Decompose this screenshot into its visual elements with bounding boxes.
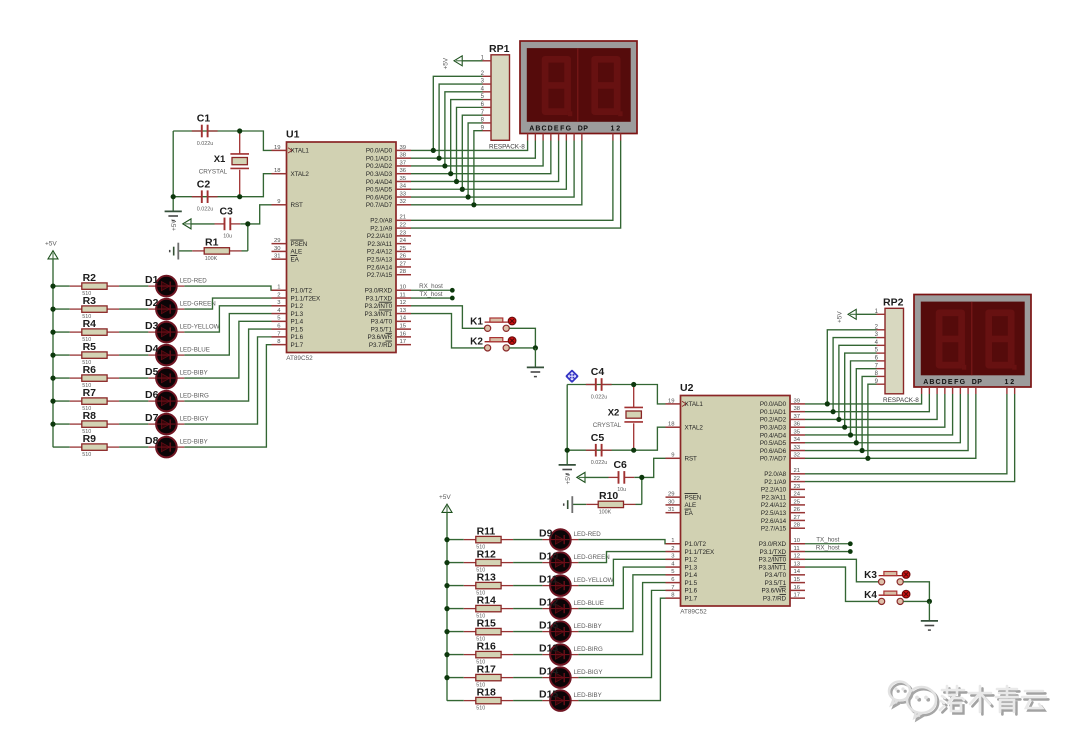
LED D16 LED-BIBY: [539, 619, 602, 641]
wire reset node down to resistor: [641, 477, 643, 504]
svg-text:27: 27: [794, 515, 801, 521]
svg-text:P3.7/RD: P3.7/RD: [763, 595, 787, 602]
7SEG-U2 digit 1 segments: [939, 313, 966, 370]
power +5V terminal at reset capacitor: [171, 219, 191, 231]
wire ground node down: [928, 601, 930, 621]
push button K2: [470, 336, 516, 351]
svg-text:P2.1/A9: P2.1/A9: [370, 225, 392, 232]
svg-text:C: C: [541, 125, 546, 132]
svg-text:R1: R1: [205, 237, 219, 249]
svg-text:K1: K1: [470, 317, 483, 328]
resistor R6 510: [70, 364, 119, 389]
svg-text:XTAL2: XTAL2: [291, 171, 310, 178]
svg-text:LED-BIBY: LED-BIBY: [574, 623, 602, 630]
svg-text:E: E: [554, 125, 559, 132]
7SEG-U2 digit 2 segments: [989, 313, 1017, 370]
svg-text:C4: C4: [591, 366, 605, 378]
svg-text:26: 26: [400, 254, 407, 260]
wire U2 P0.7 to display segment DP: [805, 394, 976, 458]
U2 pin numbers: [668, 398, 801, 598]
wire rail to resistor R11: [447, 539, 464, 541]
svg-text:510: 510: [82, 452, 91, 458]
junction U1 P0.4: [454, 179, 459, 184]
wire riser P0.3 to RP2 pin 5: [845, 353, 877, 427]
resistor R16 510: [464, 640, 513, 665]
wire reset capacitor to node: [240, 223, 248, 225]
resistor R8 510: [70, 410, 119, 435]
junction LED rail row 4: [50, 353, 55, 358]
svg-text:R3: R3: [83, 295, 97, 307]
junction crystal top: [631, 382, 636, 387]
wire U2 P0.4 to display segment E: [805, 394, 953, 435]
wire resistor R10 to reset node: [636, 503, 642, 505]
svg-text:D14: D14: [539, 665, 558, 677]
7SEG-U1 digit 2 segments: [595, 59, 623, 116]
7-segment 2-digit display 7SEG-U1 frame: [520, 41, 637, 134]
svg-text:C1: C1: [197, 113, 211, 125]
junction U2 P0.7: [865, 456, 870, 461]
svg-text:P3.7/RD: P3.7/RD: [369, 342, 393, 349]
wire rail to resistor R14: [447, 608, 464, 610]
svg-text:P3.5/T1: P3.5/T1: [765, 580, 787, 587]
svg-text:19: 19: [668, 398, 675, 404]
wire resistor R11 to LED D9: [513, 539, 542, 541]
ground at resistor R10: [564, 496, 573, 513]
wire reset node down to resistor: [247, 224, 249, 251]
svg-text:15: 15: [794, 577, 801, 583]
resistor R4 510: [70, 318, 119, 343]
wire resistor R7 to LED D6: [119, 400, 148, 402]
LED D15 LED-BIBY: [539, 688, 602, 710]
svg-text:14: 14: [400, 316, 407, 322]
wire U1 P0.3 to display segment D: [411, 141, 551, 174]
svg-text:LED-YELLOW: LED-YELLOW: [574, 577, 614, 584]
svg-text:P2.3/A11: P2.3/A11: [367, 241, 392, 248]
resistor R10 100K: [586, 490, 635, 515]
LED D1 LED-RED: [145, 274, 207, 297]
wire riser P0.2 to RP1 pin 4: [445, 92, 483, 166]
svg-text:TX_host: TX_host: [419, 291, 442, 298]
wire reset node to U2 RST: [642, 458, 666, 477]
ground below oscillator rail: [559, 465, 576, 474]
wire LED D6 to U1 P1.5: [184, 329, 271, 401]
svg-text:D12: D12: [539, 596, 558, 608]
capacitor C3 10u: [215, 206, 241, 240]
svg-text:11: 11: [400, 292, 406, 298]
svg-text:D3: D3: [145, 320, 159, 332]
LED D8 LED-BIBY: [145, 435, 208, 458]
svg-text:G: G: [566, 125, 572, 132]
svg-text:RESPACK-8: RESPACK-8: [883, 397, 919, 404]
svg-text:P3.6/WR: P3.6/WR: [762, 588, 787, 595]
wire resistor R16 to LED D14: [513, 654, 542, 656]
wire crystal loop bottom: [567, 449, 634, 451]
svg-text:K2: K2: [470, 336, 483, 347]
svg-text:P2.6/A14: P2.6/A14: [761, 518, 787, 525]
wire rail to resistor R9: [53, 446, 70, 448]
svg-text:P0.5/AD5: P0.5/AD5: [366, 187, 393, 194]
wire resistor R14 to LED D12: [513, 608, 542, 610]
svg-text:CRYSTAL: CRYSTAL: [199, 168, 228, 175]
svg-text:U1: U1: [286, 129, 300, 141]
junction LED rail row 5: [50, 376, 55, 381]
svg-text:PSEN: PSEN: [685, 494, 702, 501]
svg-text:R4: R4: [83, 318, 97, 330]
svg-text:36: 36: [794, 422, 801, 428]
resistor R14 510: [464, 594, 513, 619]
svg-text:P0.7/AD7: P0.7/AD7: [760, 456, 787, 463]
svg-text:+5V: +5V: [565, 472, 572, 484]
junction crystal top: [237, 128, 242, 133]
wire rail to resistor R5: [53, 354, 70, 356]
wire LED D8 to U1 P1.7: [184, 345, 271, 447]
svg-text:38: 38: [400, 153, 407, 159]
svg-text:R11: R11: [477, 525, 496, 537]
junction LED rail row 6: [444, 652, 449, 657]
svg-text:R14: R14: [477, 594, 496, 606]
wire LED D5 to U1 P1.4: [184, 321, 271, 378]
ground below buttons: [921, 621, 938, 630]
terminal RX_host: [816, 544, 853, 554]
resistor R12 510: [464, 548, 513, 573]
svg-text:P1.2: P1.2: [685, 557, 698, 564]
svg-text:XTAL2: XTAL2: [685, 425, 704, 432]
wire riser P0.4 to RP2 pin 6: [851, 361, 877, 435]
svg-text:F: F: [954, 379, 959, 386]
svg-text:LED-BIGY: LED-BIGY: [180, 416, 209, 423]
wire LED D16 to U2 P1.4: [578, 575, 665, 632]
svg-text:7: 7: [277, 331, 280, 337]
junction U2 P0.2: [836, 417, 841, 422]
svg-text:LED-GREEN: LED-GREEN: [180, 301, 216, 308]
svg-text:P2.6/A14: P2.6/A14: [367, 264, 393, 271]
resistor R13 510: [464, 571, 513, 596]
svg-text:D11: D11: [539, 573, 558, 585]
svg-text:+5V: +5V: [171, 219, 178, 231]
capacitor C6 10u: [609, 459, 635, 493]
resistor R11 510: [464, 525, 513, 550]
U2 pin stubs: [666, 401, 806, 598]
svg-text:100K: 100K: [599, 510, 612, 516]
junction reset node: [245, 221, 250, 226]
svg-text:+5V: +5V: [837, 311, 844, 323]
svg-text:R12: R12: [477, 548, 496, 560]
wire resistor R3 to LED D2: [119, 308, 148, 310]
svg-text:P2.4/A12: P2.4/A12: [367, 249, 393, 256]
wire LED D14 to U2 P1.6: [578, 590, 665, 677]
capacitor C5 0.022u: [586, 432, 612, 466]
svg-text:30: 30: [274, 246, 281, 252]
wire U1 P3.0 serial: [411, 289, 450, 291]
svg-text:0.022u: 0.022u: [591, 394, 608, 400]
resistor R2 510: [70, 272, 119, 297]
svg-text:21: 21: [794, 468, 801, 474]
svg-text:7: 7: [671, 585, 674, 591]
svg-text:2: 2: [277, 292, 280, 298]
wire U2 P3.2 to button K3: [805, 559, 879, 582]
svg-text:+5V: +5V: [45, 241, 57, 248]
wire node to U1 XTAL2: [240, 174, 272, 197]
svg-text:9: 9: [277, 199, 280, 205]
svg-text:LED-BIRG: LED-BIRG: [574, 646, 603, 653]
wire rail to resistor R13: [447, 585, 464, 587]
svg-text:LED-YELLOW: LED-YELLOW: [180, 324, 220, 331]
resistor R17 510: [464, 663, 513, 688]
svg-text:18: 18: [274, 168, 281, 174]
resistor R1 100K: [192, 237, 241, 262]
wire resistor R1 to reset node: [242, 250, 248, 252]
svg-text:9: 9: [671, 453, 674, 459]
svg-text:10: 10: [400, 285, 407, 291]
svg-text:P0.3/AD3: P0.3/AD3: [366, 171, 393, 178]
svg-text:P3.6/WR: P3.6/WR: [368, 334, 393, 341]
wire resistor R18 to LED D16: [513, 700, 542, 702]
resistor R9 510: [70, 433, 119, 458]
svg-text:10u: 10u: [223, 234, 232, 240]
wire resistor R5 to LED D4: [119, 354, 148, 356]
svg-text:2: 2: [1010, 379, 1014, 386]
wire resistor R13 to LED D11: [513, 585, 542, 587]
svg-text:R6: R6: [83, 364, 97, 376]
U1 pin stubs: [272, 148, 412, 345]
LED D5 LED-BIBY: [145, 366, 208, 389]
svg-text:P1.6: P1.6: [291, 334, 304, 341]
power +5V terminal at RP1 pin 1: [443, 56, 463, 70]
junction U1 P0.2: [442, 163, 447, 168]
wire button K2 to ground node: [509, 347, 535, 349]
svg-text:B: B: [535, 125, 540, 132]
junction LED rail row 4: [444, 606, 449, 611]
wire rail to resistor R8: [53, 423, 70, 425]
svg-text:D13: D13: [539, 642, 558, 654]
svg-text:17: 17: [794, 593, 801, 599]
svg-text:22: 22: [400, 223, 407, 229]
wire rail to resistor R12: [447, 562, 464, 564]
svg-text:C6: C6: [613, 459, 627, 471]
7SEG-U2 display face: [921, 302, 1025, 376]
wire +5V to reset capacitor: [191, 223, 215, 225]
svg-text:P2.0/A8: P2.0/A8: [370, 218, 392, 225]
svg-text:D9: D9: [539, 527, 553, 539]
svg-text:D16: D16: [539, 619, 558, 631]
wire rail to resistor R4: [53, 331, 70, 333]
push button K1: [470, 317, 516, 332]
wire rail to resistor R2: [53, 285, 70, 287]
junction U1 P0.1: [437, 156, 442, 161]
junction LED rail row 6: [50, 399, 55, 404]
svg-text:E: E: [948, 379, 953, 386]
svg-text:P3.5/T1: P3.5/T1: [371, 326, 393, 333]
svg-text:D15: D15: [539, 688, 558, 700]
svg-text:C3: C3: [219, 206, 233, 218]
svg-text:D6: D6: [145, 389, 159, 401]
wire rail to resistor R16: [447, 654, 464, 656]
wire rail to resistor R6: [53, 377, 70, 379]
wire LED +5V rail: [446, 512, 448, 700]
wire LED D13 to U2 P1.5: [578, 583, 665, 655]
svg-text:P2.5/A13: P2.5/A13: [761, 510, 787, 517]
svg-text:PSEN: PSEN: [291, 241, 308, 248]
terminal RX_host: [419, 283, 455, 293]
svg-text:RX_host: RX_host: [419, 283, 443, 290]
svg-text:P1.5: P1.5: [685, 580, 698, 587]
svg-text:0.022u: 0.022u: [591, 460, 608, 466]
junction LED rail row 1: [50, 284, 55, 289]
resistor R15 510: [464, 617, 513, 642]
svg-text:P1.1/T2EX: P1.1/T2EX: [685, 549, 715, 556]
wire LED D4 to U1 P1.3: [184, 314, 271, 356]
svg-text:LED-BIGY: LED-BIGY: [574, 669, 603, 676]
junction reset node: [639, 475, 644, 480]
7SEG-U1 pin labels ABCDEFG DP 1 2: [529, 125, 620, 132]
svg-text:XTAL1: XTAL1: [291, 148, 310, 155]
wire U2 P0.2 to display segment C: [805, 394, 937, 419]
svg-text:P0.6/AD6: P0.6/AD6: [760, 448, 787, 455]
junction U1 P0.5: [460, 187, 465, 192]
svg-text:P2.7/A15: P2.7/A15: [761, 526, 787, 533]
push button K3: [864, 570, 910, 585]
wire LED D11 to U2 P1.2: [578, 559, 665, 585]
svg-text:P0.7/AD7: P0.7/AD7: [366, 202, 393, 209]
svg-text:1: 1: [671, 538, 674, 544]
wire node to U1 XTAL1: [240, 131, 272, 150]
wire button K3 to ground node: [903, 582, 929, 602]
wire riser P0.2 to RP2 pin 4: [839, 345, 877, 419]
svg-text:P1.4: P1.4: [685, 572, 698, 579]
svg-text:C5: C5: [591, 432, 605, 444]
svg-text:ALE: ALE: [291, 249, 303, 256]
svg-text:F: F: [560, 125, 565, 132]
wire riser P0.3 to RP1 pin 5: [451, 100, 483, 174]
watermark logo: [889, 682, 938, 720]
junction U2 P0.4: [848, 432, 853, 437]
wire ground node down: [534, 348, 536, 368]
svg-text:P3.0/RXD: P3.0/RXD: [365, 288, 393, 295]
svg-text:P0.0/AD0: P0.0/AD0: [366, 148, 393, 155]
svg-text:LED-BLUE: LED-BLUE: [180, 347, 210, 354]
svg-text:C2: C2: [197, 178, 211, 190]
svg-text:+5V: +5V: [443, 57, 450, 69]
U2 pin names: [685, 401, 787, 602]
RP2 pin stubs and numbers: [875, 309, 885, 385]
svg-text:RST: RST: [291, 202, 304, 209]
svg-text:P2.4/A12: P2.4/A12: [761, 502, 787, 509]
junction U2 P0.1: [831, 409, 836, 414]
svg-text:P0.5/AD5: P0.5/AD5: [760, 440, 787, 447]
wire U1 P0.2 to display segment C: [411, 141, 543, 166]
svg-text:P1.2: P1.2: [291, 303, 304, 310]
svg-text:22: 22: [794, 476, 801, 482]
svg-text:R16: R16: [477, 640, 496, 652]
wire button K1 to ground node: [509, 328, 535, 348]
svg-text:X2: X2: [608, 407, 620, 418]
svg-text:P3.2/INT0: P3.2/INT0: [365, 303, 393, 310]
microcontroller U1 AT89C52 body: [286, 129, 396, 363]
svg-text:P3.0/RXD: P3.0/RXD: [759, 541, 787, 548]
svg-text:R7: R7: [83, 387, 97, 399]
svg-text:34: 34: [794, 437, 801, 443]
capacitor C4 0.022u: [586, 366, 612, 400]
svg-text:P0.4/AD4: P0.4/AD4: [760, 432, 787, 439]
wire resistor R8 to LED D7: [119, 423, 148, 425]
svg-text:0.022u: 0.022u: [197, 207, 214, 213]
svg-text:P3.1/TXD: P3.1/TXD: [760, 549, 787, 556]
junction buttons ground node: [533, 345, 538, 350]
7SEG-U2 bottom pin stubs: [922, 387, 1015, 394]
svg-text:RX_host: RX_host: [816, 544, 840, 551]
svg-text:35: 35: [400, 176, 407, 182]
junction U2 P0.3: [842, 425, 847, 430]
wire button K4 to ground node: [903, 600, 929, 602]
svg-text:P2.0/A8: P2.0/A8: [764, 471, 786, 478]
svg-text:13: 13: [400, 308, 407, 314]
svg-text:D10: D10: [539, 550, 558, 562]
svg-text:D7: D7: [145, 412, 159, 424]
crystal X2: [593, 385, 643, 451]
svg-text:B: B: [929, 379, 934, 386]
wire U2 P0.0 to display segment A: [805, 394, 922, 404]
svg-text:ALE: ALE: [685, 502, 697, 509]
wire riser P0.1 to RP2 pin 3: [833, 338, 876, 412]
svg-text:23: 23: [400, 230, 407, 236]
svg-text:28: 28: [794, 523, 801, 529]
svg-text:23: 23: [794, 484, 801, 490]
wire resistor R9 to LED D8: [119, 446, 148, 448]
svg-text:P1.3: P1.3: [685, 564, 698, 571]
svg-text:P1.3: P1.3: [291, 311, 304, 318]
junction crystal bottom: [237, 194, 242, 199]
svg-text:32: 32: [400, 199, 407, 205]
svg-text:38: 38: [794, 406, 801, 412]
terminal TX_host: [419, 291, 454, 301]
svg-text:P3.2/INT0: P3.2/INT0: [759, 557, 787, 564]
ground below oscillator rail: [165, 211, 182, 220]
U1 pin names: [291, 148, 393, 349]
svg-text:D4: D4: [145, 343, 159, 355]
svg-text:P0.2/AD2: P0.2/AD2: [366, 163, 393, 170]
svg-text:P0.1/AD1: P0.1/AD1: [366, 155, 393, 162]
svg-text:12: 12: [794, 554, 801, 560]
svg-text:24: 24: [400, 238, 407, 244]
wire riser P0.5 to RP1 pin 7: [462, 115, 482, 189]
LED D4 LED-BLUE: [145, 343, 210, 366]
wire U1 P0.1 to display segment B: [411, 141, 535, 159]
wire rail to resistor R7: [53, 400, 70, 402]
junction buttons ground node: [927, 599, 932, 604]
svg-text:37: 37: [794, 414, 801, 420]
7SEG-U1 bottom pin stubs: [528, 134, 621, 141]
wire resistor R15 to LED D13: [513, 631, 542, 633]
wire U1 P2.0 to display digit 1: [411, 141, 613, 221]
svg-text:13: 13: [794, 561, 801, 567]
resistor R3 510: [70, 295, 119, 320]
ground at resistor R1: [170, 243, 179, 260]
svg-text:33: 33: [400, 191, 407, 197]
wire crystal loop top: [173, 130, 240, 132]
svg-text:29: 29: [274, 238, 281, 244]
wire LED D1 to U1 P1.0: [184, 286, 271, 290]
junction oscillator rail: [171, 194, 176, 199]
power +5V terminal at reset capacitor: [565, 472, 585, 484]
wire U1 P3.3 to button K2: [411, 314, 485, 348]
svg-text:33: 33: [794, 445, 801, 451]
capacitor C2 0.022u: [192, 178, 218, 212]
svg-text:12: 12: [400, 300, 407, 306]
microcontroller U2 AT89C52 body: [680, 382, 790, 616]
svg-text:P3.4/T0: P3.4/T0: [765, 572, 787, 579]
svg-text:16: 16: [400, 331, 407, 337]
svg-text:P0.6/AD6: P0.6/AD6: [366, 194, 393, 201]
